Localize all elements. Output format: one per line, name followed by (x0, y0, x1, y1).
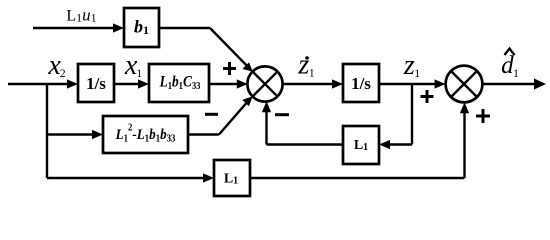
node x2 label (47, 50, 65, 81)
wire branch to block L1^2-L1b1b33 (47, 130, 103, 139)
node z1 label (403, 50, 420, 81)
wire x1 to block L1b1C33 (114, 79, 149, 88)
wire z1 branch down to block L1 (feedback) (379, 84, 412, 149)
svg-text:1/s: 1/s (86, 74, 106, 93)
summing junction S2 (446, 66, 483, 103)
wire input u1 to block b1 (33, 23, 124, 32)
wire bottom L1 output up into S2 (250, 102, 469, 178)
wire z1 to summing junction S2 (379, 79, 446, 88)
minus sign at S1 bottom input (275, 113, 289, 116)
summing junction S1 (247, 66, 282, 101)
wire S2 output dhat1 (482, 79, 546, 90)
minus sign at S1 lower-left input (205, 113, 218, 116)
node dhat1 output label (501, 49, 519, 81)
svg-text:1/s: 1/s (351, 74, 371, 93)
plus sign at S1 upper-left input (223, 62, 236, 75)
block b1 (124, 8, 159, 47)
block integrator 1/s (second) (343, 64, 379, 102)
block L1b1C33 (149, 64, 209, 102)
node zdot1 label (297, 50, 314, 81)
plus sign at S2 left input (421, 90, 434, 103)
wire L1b1C33 output to summing junction S1 (209, 79, 248, 88)
block integrator 1/s (first) (78, 64, 114, 102)
block L1^2-L1b1b33 (103, 116, 188, 153)
plus sign at S2 bottom input (476, 109, 490, 123)
block L1 (bottom) (214, 160, 250, 196)
wire x2 branch vertical down (46, 84, 48, 178)
node x1 label (124, 50, 142, 81)
wire L1^2-L1b1b33 output diagonal to summing junction S1 (188, 96, 253, 134)
wire x2 input to integrator (8, 79, 78, 88)
wire L1 feedback output up into S1 (262, 101, 343, 144)
wire S1 output to integrator 1/s (second) (282, 79, 343, 88)
block L1 (feedback right) (343, 126, 379, 164)
wire b1 output to summing junction S1 (diagonal) (159, 28, 253, 72)
wire x2 branch to bottom block L1 (47, 173, 214, 182)
node u1 input label L1u1 (66, 6, 96, 25)
